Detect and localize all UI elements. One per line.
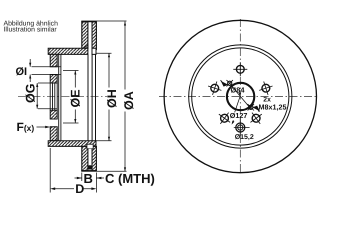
svg-text:Ø84: Ø84 bbox=[230, 85, 245, 94]
svg-text:Ø15,2: Ø15,2 bbox=[235, 133, 254, 141]
centerline (left view) bbox=[18, 96, 107, 98]
friction ring top-left plate (hatched) bbox=[82, 22, 88, 49]
center bore circle bbox=[227, 83, 254, 110]
disc outer edge (top cap line) bbox=[81, 21, 96, 23]
vertical centerline bbox=[239, 19, 241, 175]
svg-text:ØI: ØI bbox=[15, 66, 27, 78]
hole Ø15,2 (bottom) bbox=[234, 118, 250, 136]
svg-text:F(x): F(x) bbox=[16, 120, 34, 134]
svg-text:M8x1,25: M8x1,25 bbox=[258, 103, 286, 112]
stud hole upper-left bbox=[206, 79, 224, 97]
svg-text:ØE: ØE bbox=[69, 89, 83, 107]
friction ring top-right plate (hatched) bbox=[92, 22, 96, 50]
mounting flange wall (hatched, with bore + stud hole windows) bbox=[50, 54, 57, 140]
svg-text:ØH: ØH bbox=[105, 89, 119, 108]
vent slot (bottom, white) bbox=[89, 149, 92, 166]
outer circle bbox=[164, 20, 316, 172]
friction ring bottom-right plate (hatched) bbox=[92, 146, 96, 170]
hat bottom band (hatched) bbox=[48, 141, 96, 147]
stud hole upper-right bbox=[257, 79, 275, 97]
dimension B bbox=[75, 173, 105, 193]
bore edge lines in wall bbox=[50, 83, 57, 110]
leader from center to Ø127 bbox=[235, 97, 240, 113]
hat top band (hatched) bbox=[48, 45, 96, 55]
svg-text:B: B bbox=[83, 171, 92, 186]
stud hole top bbox=[233, 62, 247, 76]
M8 leader arrow upper-left (filled) bbox=[221, 81, 229, 87]
horizontal centerline bbox=[159, 96, 317, 98]
svg-text:C (MTH): C (MTH) bbox=[105, 171, 155, 186]
M8 leader arrow lower-right (filled) bbox=[252, 106, 260, 112]
M8 hole upper-left bbox=[227, 80, 233, 86]
disc outer edge (bottom cap line) bbox=[81, 170, 96, 172]
note text "Abbildung ähnlich / Illustration similar" bbox=[3, 21, 58, 34]
hat face visible edges bbox=[88, 54, 96, 140]
dimension D bbox=[50, 148, 92, 193]
stud hole lower-right bbox=[246, 108, 266, 128]
vent slot end cap (bottom) bbox=[88, 165, 92, 169]
friction ring bottom-left plate (hatched) bbox=[82, 146, 88, 170]
dimension ØE bbox=[63, 71, 79, 124]
dimension ØA bbox=[97, 21, 127, 171]
stud hole lower-left bbox=[215, 108, 235, 128]
M8 hole lower-right bbox=[248, 104, 254, 110]
dimension ØI bbox=[30, 59, 61, 82]
dimension ØG bbox=[37, 83, 57, 109]
M8 leader line crossing bore bbox=[231, 86, 251, 110]
svg-text:D: D bbox=[75, 182, 84, 196]
hub pilot edge lines bbox=[59, 54, 61, 140]
vent slot (top, white) bbox=[89, 23, 92, 54]
Ø127 leader arrow bbox=[232, 121, 234, 124]
svg-text:Illustration similar: Illustration similar bbox=[3, 27, 57, 34]
svg-text:ØA: ØA bbox=[122, 91, 136, 110]
svg-text:Ø127: Ø127 bbox=[230, 111, 248, 120]
vent exit pocket (bottom, white) bbox=[87, 144, 93, 149]
dimension ØH bbox=[96, 53, 111, 141]
friction inner edge double circle bbox=[189, 45, 292, 148]
svg-text:ØG: ØG bbox=[24, 84, 38, 103]
